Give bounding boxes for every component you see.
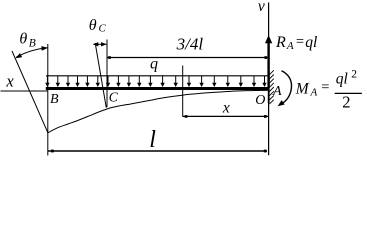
tangent line at B — [12, 51, 48, 133]
moment arrow M_A — [282, 71, 292, 103]
svg-text:2: 2 — [342, 93, 350, 112]
svg-text:C: C — [99, 23, 107, 35]
svg-text:ql: ql — [305, 34, 317, 51]
beam BO — [46, 87, 269, 90]
svg-text:A: A — [286, 40, 294, 52]
angle arrow theta_C — [94, 43, 107, 45]
svg-text:ql: ql — [336, 70, 348, 87]
deflection curve — [48, 90, 268, 133]
dimension line 3/4 l — [107, 57, 268, 59]
x-axis — [1, 90, 48, 92]
svg-text:C: C — [109, 89, 119, 104]
svg-text:A: A — [272, 84, 282, 99]
svg-text:A: A — [310, 86, 318, 98]
svg-text:R: R — [275, 34, 286, 51]
dimension line l — [48, 150, 267, 152]
extension line for x dimension — [182, 66, 184, 117]
svg-text:O: O — [255, 93, 265, 108]
svg-text:=: = — [296, 34, 304, 50]
svg-text:x: x — [5, 71, 14, 90]
angle arrow theta_B — [16, 48, 47, 57]
distributed load top line — [46, 75, 268, 77]
dimension line x — [183, 115, 269, 117]
tangent line at C — [95, 43, 106, 108]
distributed load arrows — [47, 76, 264, 83]
svg-text:v: v — [258, 0, 265, 15]
svg-text:l: l — [149, 127, 156, 153]
svg-text:θ: θ — [19, 31, 27, 48]
wall hatching — [269, 70, 273, 104]
svg-text:B: B — [29, 38, 36, 50]
extension line at B — [47, 44, 49, 156]
wall support line at A — [268, 3, 270, 156]
svg-text:θ: θ — [89, 17, 97, 34]
svg-text:3/4l: 3/4l — [176, 34, 204, 53]
svg-text:2: 2 — [351, 69, 357, 81]
svg-text:=: = — [321, 80, 329, 96]
reaction arrow R_A — [267, 41, 269, 88]
svg-text:x: x — [222, 99, 230, 116]
svg-text:M: M — [295, 81, 310, 98]
extension line at C — [106, 40, 108, 108]
svg-text:B: B — [50, 92, 59, 107]
